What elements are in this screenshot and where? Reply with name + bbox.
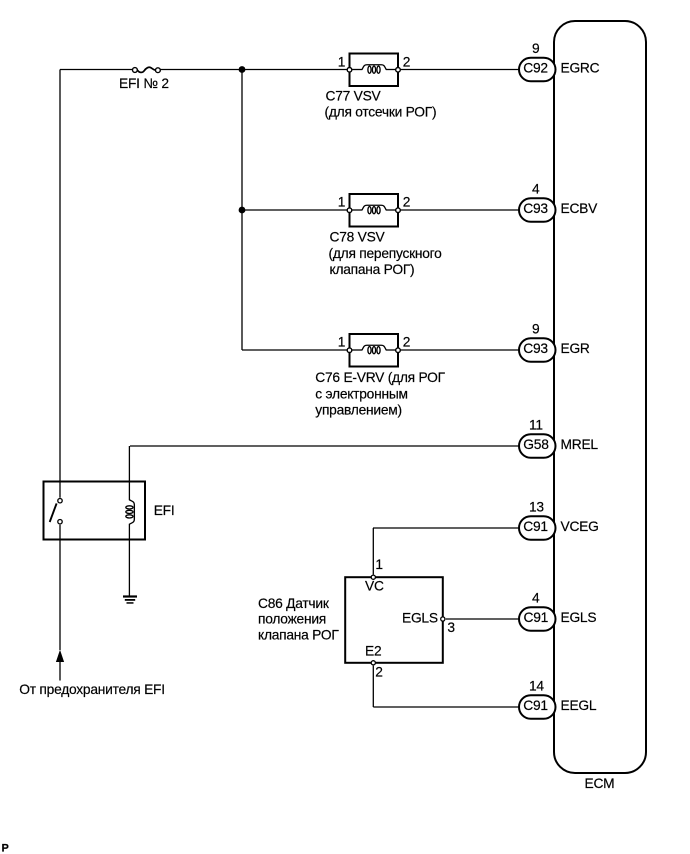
svg-text:G58: G58 <box>523 437 549 452</box>
svg-text:EGRC: EGRC <box>561 61 600 76</box>
ground <box>123 595 137 603</box>
svg-text:ECM: ECM <box>585 776 615 791</box>
wire: row1 C77 VSV pin2 to C92 oval <box>398 69 520 71</box>
connector oval C91 pin 14 EEGL <box>519 695 556 719</box>
svg-text:с электронным: с электронным <box>315 386 407 401</box>
wire: row2 C78 VSV pin2 to C93 oval <box>398 209 520 211</box>
svg-text:11: 11 <box>529 418 543 433</box>
svg-text:1: 1 <box>338 54 345 69</box>
wire: VC horizontal to C91 <box>373 527 520 529</box>
svg-text:VC: VC <box>365 579 384 594</box>
svg-text:ECBV: ECBV <box>561 201 599 216</box>
connector oval C93 pin 4 ECBV <box>519 198 556 222</box>
svg-text:4: 4 <box>532 182 540 197</box>
solenoid C78 VSV <box>347 194 400 227</box>
wire: row2 junction to C78 VSV pin1 <box>242 209 350 211</box>
svg-text:C91: C91 <box>523 698 548 713</box>
relay switch contact top <box>58 499 62 503</box>
wire: relay coil to ground <box>128 524 130 596</box>
svg-text:3: 3 <box>447 620 455 635</box>
solenoid C77 VSV <box>347 54 400 87</box>
svg-text:C93: C93 <box>523 341 548 356</box>
svg-text:клапана РОГ): клапана РОГ) <box>330 262 415 277</box>
wire: arrow tail <box>59 662 61 681</box>
svg-text:EGLS: EGLS <box>402 611 438 626</box>
svg-text:1: 1 <box>338 335 345 350</box>
svg-text:2: 2 <box>403 335 410 350</box>
sensor C86 box <box>345 575 445 665</box>
wire: MREL horizontal <box>130 445 520 447</box>
svg-text:9: 9 <box>532 41 540 56</box>
svg-text:От предохранителя EFI: От предохранителя EFI <box>19 682 165 697</box>
svg-text:клапана РОГ: клапана РОГ <box>258 627 339 642</box>
wire: EGLS horizontal to C91 <box>446 618 520 620</box>
svg-text:9: 9 <box>532 322 540 337</box>
svg-text:EFI № 2: EFI № 2 <box>119 76 169 91</box>
svg-text:положения: положения <box>258 612 326 627</box>
ECM body <box>554 21 646 773</box>
connector oval C91 pin 13 VCEG <box>519 516 556 540</box>
wire: switch bottom to arrow <box>59 525 61 650</box>
svg-text:(для отсечки РОГ): (для отсечки РОГ) <box>325 105 437 120</box>
svg-text:C78 VSV: C78 VSV <box>330 230 386 245</box>
svg-text:C92: C92 <box>523 61 548 76</box>
svg-text:(для перепускного: (для перепускного <box>329 246 443 261</box>
junction node row1 <box>239 66 246 73</box>
svg-text:2: 2 <box>403 195 410 210</box>
svg-text:VCEG: VCEG <box>561 519 599 534</box>
svg-text:C91: C91 <box>523 519 548 534</box>
svg-text:2: 2 <box>375 665 382 680</box>
svg-text:13: 13 <box>529 500 544 515</box>
relay coil <box>126 500 135 525</box>
svg-text:P: P <box>2 843 9 854</box>
wire: branch rail vertical x=242 <box>241 70 243 351</box>
svg-text:C91: C91 <box>524 610 549 625</box>
wire: VC vertical <box>372 528 374 575</box>
svg-text:14: 14 <box>529 679 544 694</box>
connector oval C92 pin 9 EGRC <box>519 58 556 82</box>
fuse EFI No.2 <box>133 67 161 72</box>
wire: row3 branch corner to C76 pin1 <box>242 349 350 351</box>
svg-text:E2: E2 <box>365 643 381 658</box>
arrow from EFI fuse <box>56 650 64 662</box>
wire: row1 junction to C77 VSV pin1 <box>242 69 350 71</box>
svg-text:1: 1 <box>338 195 345 210</box>
svg-text:4: 4 <box>532 591 540 606</box>
wire: top feed horizontal row1 left segment (rail to fuse) <box>60 69 132 71</box>
svg-text:С76 E-VRV (для РОГ: С76 E-VRV (для РОГ <box>315 370 445 385</box>
svg-text:MREL: MREL <box>561 437 599 452</box>
svg-text:2: 2 <box>403 54 410 69</box>
wire: MREL vertical down to relay coil <box>128 446 130 500</box>
junction node row2 <box>239 207 246 214</box>
svg-text:управлением): управлением) <box>315 403 402 418</box>
svg-text:EGLS: EGLS <box>561 610 597 625</box>
solenoid C76 E-VRV <box>347 334 400 367</box>
relay EFI <box>44 482 146 540</box>
connector oval G58 pin 11 MREL <box>519 434 556 458</box>
connector oval C91 pin 4 EGLS <box>519 607 556 631</box>
connector oval C93 pin 9 EGR <box>519 338 556 362</box>
wire: row1 fuse to junction <box>161 69 243 71</box>
relay switch contact bottom <box>58 520 62 524</box>
svg-text:EFI: EFI <box>154 503 175 518</box>
svg-text:C86 Датчик: C86 Датчик <box>258 596 330 611</box>
wire: left rail vertical (fuse feed down to relay switch) <box>59 70 61 498</box>
wire: E2 vertical <box>372 666 374 707</box>
wire: E2 horizontal to C91 <box>373 706 520 708</box>
svg-text:C93: C93 <box>523 201 548 216</box>
svg-text:EEGL: EEGL <box>561 698 597 713</box>
relay switch blade <box>50 503 57 522</box>
svg-text:EGR: EGR <box>561 341 590 356</box>
wire: row3 C76 pin2 to C93 oval <box>398 349 520 351</box>
svg-text:1: 1 <box>375 557 382 572</box>
svg-text:C77 VSV: C77 VSV <box>326 88 382 103</box>
